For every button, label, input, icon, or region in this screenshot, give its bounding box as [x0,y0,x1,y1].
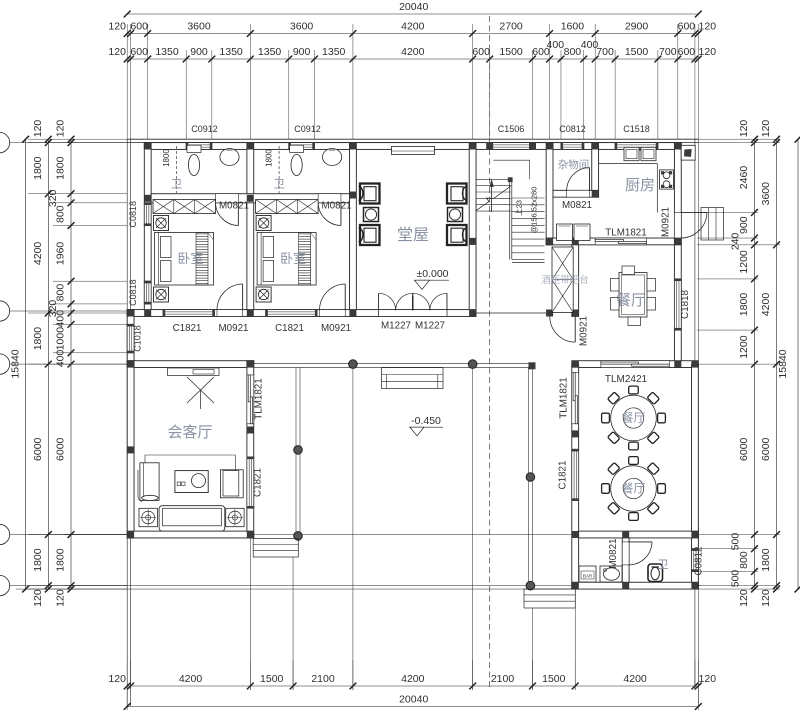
window C1506 stair [490,143,533,150]
door M0821 bath2 [318,194,341,226]
svg-text:C0812: C0812 [559,124,586,134]
svg-text:-0.450: -0.450 [411,415,441,427]
svg-text:120: 120 [108,46,126,58]
hall entry steps [382,368,444,389]
svg-text:600: 600 [678,46,696,58]
svg-text:1350: 1350 [219,46,243,58]
svg-text:400: 400 [55,349,67,367]
svg-text:1350: 1350 [322,46,346,58]
wall suite divider [247,143,254,317]
svg-text:C1506: C1506 [498,124,525,134]
eave outline outer [127,138,698,140]
bar cabinet X-rect [552,247,573,312]
svg-text:500: 500 [730,570,742,588]
grid vertical 12120 [472,364,474,690]
grid vertical 4320 ext [249,538,251,690]
svg-text:120: 120 [760,589,772,607]
door M1227 x2 hall entry [379,310,447,317]
svg-text:酒柜带吧台: 酒柜带吧台 [541,274,589,286]
wall bath partition 13920 [579,531,699,538]
dim left total [25,139,27,589]
svg-text:120: 120 [699,21,717,33]
wall hall west [350,143,357,317]
svg-text:4200: 4200 [401,21,425,33]
svg-text:120: 120 [32,120,44,138]
door M0921 corridor [574,316,576,342]
grid line bottom 13920 [64,534,575,536]
svg-text:1500: 1500 [542,673,566,685]
svg-text:1200: 1200 [738,335,750,359]
terrace column dot 1 [468,360,477,369]
kitchen east steps [701,208,724,241]
hall chair R2 [447,225,467,245]
svg-text:M1227: M1227 [381,321,411,332]
SE steps [524,589,575,608]
terrace column dot 5 [526,581,535,590]
axis bubble F [0,132,10,152]
terrace column dot 4 [526,473,535,482]
svg-text:M0921: M0921 [661,207,672,237]
svg-text:厨房: 厨房 [625,177,655,194]
window C0812 banquet east [692,549,699,572]
svg-text:1350: 1350 [258,46,282,58]
svg-text:M0921: M0921 [321,323,351,334]
eave outline inner top [127,142,698,144]
axis bubble D [0,301,10,321]
dim bottom total [127,706,698,708]
grid vertical 15720 ext [574,589,576,690]
svg-text:600: 600 [472,46,490,58]
wall top exterior [144,143,681,150]
dining table rect [619,273,647,318]
svg-text:20040: 20040 [399,694,428,706]
wardrobe bed2 [256,200,319,214]
window C0818 bed1 upper [144,203,151,226]
sliding door TLM1821 banquet west [572,373,579,424]
svg-text:C1821: C1821 [173,323,202,334]
window C1018 verandah [127,324,134,352]
svg-text:M0821: M0821 [322,201,352,212]
door M0821 bath1 [216,194,239,226]
svg-text:会客厅: 会客厅 [167,424,212,441]
window C1818 dining east [674,279,681,330]
living TV cabinet [168,368,220,376]
svg-text:600: 600 [130,21,148,33]
wall living north [127,361,254,368]
svg-text:2100: 2100 [311,673,335,685]
svg-text:M1227: M1227 [415,321,445,332]
wall living east [247,361,254,538]
eave line left outer [126,139,128,706]
dim left extension lines [28,138,127,140]
corner post top-right [681,145,695,160]
wall living south [127,531,254,538]
svg-text:400: 400 [55,310,67,328]
window C1821 bed2 [266,310,317,317]
dining chairs [611,279,620,292]
living armchair [220,470,243,498]
svg-text:卧室: 卧室 [280,251,306,266]
wall kitchen south [546,238,681,245]
svg-text:900: 900 [738,216,750,234]
hall chair L2 [360,225,380,245]
svg-text:2700: 2700 [499,21,523,33]
svg-text:1200: 1200 [738,250,750,274]
svg-text:TLM1821: TLM1821 [605,228,646,239]
washbasin lower [600,566,622,582]
svg-text:1800: 1800 [738,293,750,317]
svg-text:3600: 3600 [760,182,772,206]
bed2 [257,233,316,286]
terrace edge right [527,367,529,585]
svg-text:1600: 1600 [561,21,585,33]
living sofa left [140,463,159,501]
kitchen counter [599,163,658,165]
svg-text:1350: 1350 [155,46,179,58]
svg-text:320: 320 [47,189,59,207]
svg-text:餐厅: 餐厅 [621,481,645,496]
wall storage south [553,190,599,197]
svg-text:120: 120 [55,589,67,607]
beam line 6120 stair hall [476,312,546,314]
svg-text:20040: 20040 [399,1,428,13]
svg-text:TLM2421: TLM2421 [605,374,648,385]
wall dining west (bar wall) [572,245,579,317]
svg-text:1500: 1500 [499,46,523,58]
svg-text:800: 800 [55,205,67,223]
grid line bottom 15840 [16,588,698,590]
nightstands bed2 [256,216,271,231]
grid line bottom 15720 [64,585,701,587]
svg-text:4200: 4200 [32,242,44,266]
svg-text:1960: 1960 [55,242,67,266]
svg-text:卫: 卫 [658,559,669,571]
washer [579,566,596,582]
window C1518 kitchen [615,143,658,150]
svg-text:卫: 卫 [171,179,182,191]
svg-text:6000: 6000 [738,437,750,461]
svg-text:3600: 3600 [187,21,211,33]
wall banquet west [572,364,579,589]
svg-text:C1821: C1821 [558,461,569,490]
dim right sub chain [754,139,756,589]
svg-text:800: 800 [564,46,582,58]
window C0912 bath2 [289,143,315,150]
svg-text:4200: 4200 [179,673,203,685]
svg-text:M0821: M0821 [562,200,592,211]
svg-text:800: 800 [738,551,750,569]
axis bubble A [0,575,10,595]
svg-text:1800: 1800 [55,548,67,572]
svg-text:@156.52x280: @156.52x280 [530,187,539,234]
sliding door TLM2421 banquet north [601,361,669,368]
hall altar table [392,146,435,154]
svg-text:4200: 4200 [401,46,425,58]
dim right major chain [776,139,778,589]
wardrobe bed1 [153,200,216,214]
svg-text:1800: 1800 [265,149,274,167]
svg-text:TLM1821: TLM1821 [559,377,570,418]
wall hall east [469,143,476,317]
svg-text:120: 120 [108,21,126,33]
bathroom1 fixtures (toilet+sink) [187,145,201,152]
svg-text:400: 400 [547,39,565,51]
terrace edge left [295,367,297,534]
eave line left inner [130,139,132,706]
window C0818 bed1 lower [144,281,151,304]
svg-text:15840: 15840 [10,349,22,378]
sliding door TLM1821 living east [247,375,254,424]
grid vertical 5820 ext [292,557,294,690]
dim top extension lines [126,24,128,139]
living TV symbol [187,377,214,403]
svg-text:120: 120 [699,673,717,685]
svg-text:M0821: M0821 [219,201,249,212]
svg-text:卫: 卫 [274,179,285,191]
wall banquet east [692,364,699,589]
dim top sub chain [127,58,698,60]
living south steps [253,539,298,558]
svg-text:1500: 1500 [260,673,284,685]
svg-text:1800: 1800 [55,156,67,180]
svg-text:C0818: C0818 [128,201,138,228]
living sofa bottom [159,506,225,531]
dim left major chain [47,139,49,589]
wall storage east [592,143,599,198]
nightstands bed1 [154,216,169,231]
svg-text:1800: 1800 [162,149,171,167]
wall banquet south [572,582,699,589]
banquet table 1 [611,395,657,441]
bathroom2 fixtures (toilet+sink) [290,145,304,152]
dim top total [127,13,698,15]
window C1821 bed1 [163,310,214,317]
svg-text:C0818: C0818 [128,279,138,306]
living plant stands [139,508,157,526]
banquet table 2 [611,466,657,512]
kitchen stove [660,170,674,189]
svg-text:C0912: C0912 [191,124,218,134]
svg-text:120: 120 [738,120,750,138]
svg-text:700: 700 [596,46,614,58]
door M0921 bed1 [217,284,243,316]
svg-text:1000: 1000 [55,327,67,351]
dim right extension lines [697,138,780,140]
svg-text:120: 120 [760,120,772,138]
toilet lower [648,564,663,582]
hall tea table R [448,208,463,222]
dim left sub chain [70,139,72,589]
wall bathroom south [151,194,349,203]
svg-text:6000: 6000 [760,437,772,461]
svg-text:120: 120 [55,120,67,138]
svg-text:TLM1821: TLM1821 [254,378,265,419]
svg-text:120: 120 [738,589,750,607]
hall tea table L [364,208,379,222]
door M0921 bed2 [320,284,346,316]
svg-text:2100: 2100 [491,673,515,685]
svg-text:1800: 1800 [32,327,44,351]
svg-text:6000: 6000 [32,437,44,461]
axis dashed 12720 [489,16,491,690]
svg-text:120: 120 [32,589,44,607]
eave line right inner2 [697,139,699,706]
svg-text:4200: 4200 [760,293,772,317]
svg-text:500: 500 [730,533,742,551]
svg-text:2900: 2900 [625,21,649,33]
eave line right outer [694,139,696,690]
window C0812 storage [561,143,584,150]
door M0821 bath lower-right [622,542,652,565]
svg-text:2460: 2460 [738,166,750,190]
svg-text:C1018: C1018 [133,325,143,352]
svg-text:240: 240 [730,232,742,250]
door M1227 double doors [379,310,447,317]
svg-text:C0812: C0812 [694,547,705,576]
axis bubble B [0,524,10,544]
structural columns [144,143,151,150]
svg-text:杂物间: 杂物间 [558,158,590,171]
wall living west [127,361,134,538]
svg-text:800: 800 [55,284,67,302]
grid vertical 7920 [352,364,354,690]
sliding door TLM1821 kitchen south [595,238,646,245]
wall storage west / kitchen west [546,143,553,245]
door M0921 kitchen east [674,212,707,238]
wall verandah west [127,310,134,365]
svg-text:C1518: C1518 [623,124,650,134]
svg-text:6000: 6000 [55,437,67,461]
svg-text:1800: 1800 [760,548,772,572]
svg-text:餐厅: 餐厅 [621,410,645,425]
svg-text:M0921: M0921 [579,316,590,346]
window C0912 bath1 [186,143,212,150]
svg-text:900: 900 [293,46,311,58]
dim bottom extension lines [126,660,128,690]
svg-text:700: 700 [659,46,677,58]
hall chair R1 [447,184,467,204]
svg-text:C1821: C1821 [275,323,304,334]
svg-text:4200: 4200 [401,673,425,685]
living coffee table [175,471,208,493]
svg-text:卧室: 卧室 [177,251,203,266]
svg-text:C1818: C1818 [680,290,691,319]
svg-text:900: 900 [190,46,208,58]
bed1 [155,233,214,286]
svg-text:M0821: M0821 [608,539,619,569]
wall bedroom south with hall front [127,310,476,317]
svg-text:±0.000: ±0.000 [416,268,448,280]
svg-text:C1821: C1821 [253,468,264,497]
svg-text:餐厅: 餐厅 [616,292,646,309]
svg-text:600: 600 [130,46,148,58]
terrace column dot 0 [349,360,358,369]
dim top major chain [127,33,698,35]
grid vertical 14220 ext [531,608,533,690]
svg-text:1500: 1500 [625,46,649,58]
staircase [493,159,529,161]
door M0821 storage [567,168,590,198]
living rug line [145,455,235,470]
svg-text:4200: 4200 [623,673,647,685]
kitchen cabinets [557,224,573,241]
svg-text:1800: 1800 [32,156,44,180]
window C1821 living east [247,457,254,508]
wall banquet north [572,361,699,368]
svg-text:3600: 3600 [290,21,314,33]
svg-text:上23: 上23 [515,200,524,216]
wall kitchen east [674,143,681,245]
wall left exterior [144,143,151,317]
svg-text:M0921: M0921 [219,323,249,334]
wall bath divider vertical [622,538,629,582]
terrace column dot 2 [294,446,303,455]
axis bubble C [0,354,10,374]
hall chair L1 [360,184,380,204]
dim bottom chain [127,685,698,687]
svg-text:C0912: C0912 [294,124,321,134]
window C1821 banquet west [572,449,579,500]
terrace column dot 3 [294,532,303,541]
svg-text:BAR: BAR [583,574,593,579]
svg-text:600: 600 [678,21,696,33]
svg-text:120: 120 [699,46,717,58]
svg-text:120: 120 [108,673,126,685]
wall dining east [674,245,681,364]
svg-text:1800: 1800 [32,548,44,572]
verandah south edge line [254,362,533,364]
kitchen sink [624,147,639,160]
svg-text:堂屋: 堂屋 [397,226,429,244]
